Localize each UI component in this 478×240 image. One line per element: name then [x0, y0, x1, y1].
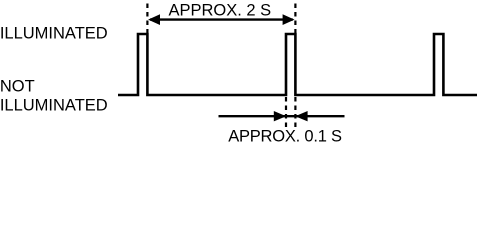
waveform trace (baseline with three pulses) — [118, 34, 477, 95]
svg-text:ILLUMINATED: ILLUMINATED — [0, 97, 108, 115]
svg-text:APPROX. 2 S: APPROX. 2 S — [168, 2, 271, 20]
period dimension arrow (2 s) — [148, 14, 294, 25]
label APPROX. 2 S — [168, 2, 271, 20]
label ILLUMINATED (high level) — [0, 24, 108, 42]
svg-text:NOT: NOT — [0, 77, 35, 95]
pulse width dimension arrows (0.1 s) — [219, 111, 345, 121]
dashed marker at pulse 1 trailing edge (top) — [146, 4, 148, 34]
label NOT ILLUMINATED (low level) — [0, 77, 108, 114]
svg-text:APPROX. 0.1 S: APPROX. 0.1 S — [228, 128, 342, 146]
dashed marker at pulse 2 leading edge (bottom) — [285, 97, 287, 129]
svg-text:ILLUMINATED: ILLUMINATED — [0, 24, 108, 42]
dashed marker at pulse 2 trailing edge (top) — [294, 4, 296, 34]
dashed marker at pulse 2 trailing edge (bottom) — [294, 97, 296, 129]
label APPROX. 0.1 S — [228, 128, 342, 146]
